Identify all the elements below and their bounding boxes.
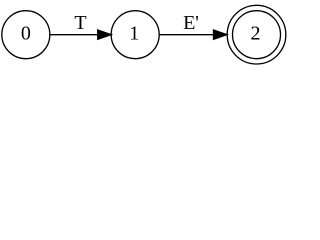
svg-text:E': E' (183, 12, 199, 34)
wire edge 0->1 (50, 34, 97, 36)
svg-text:1: 1 (129, 23, 139, 45)
state machine diagram (0, 0, 288, 69)
accepting state node 2 (double circle) (227, 5, 286, 64)
svg-text:0: 0 (21, 23, 31, 45)
svg-text:T: T (74, 12, 86, 34)
svg-text:2: 2 (251, 23, 261, 45)
state node 1 (111, 11, 159, 59)
arrowhead edge 0->1 (98, 30, 111, 39)
wire edge 1->2 (159, 34, 213, 36)
arrowhead edge 1->2 (214, 30, 227, 39)
state node 0 (2, 11, 50, 59)
